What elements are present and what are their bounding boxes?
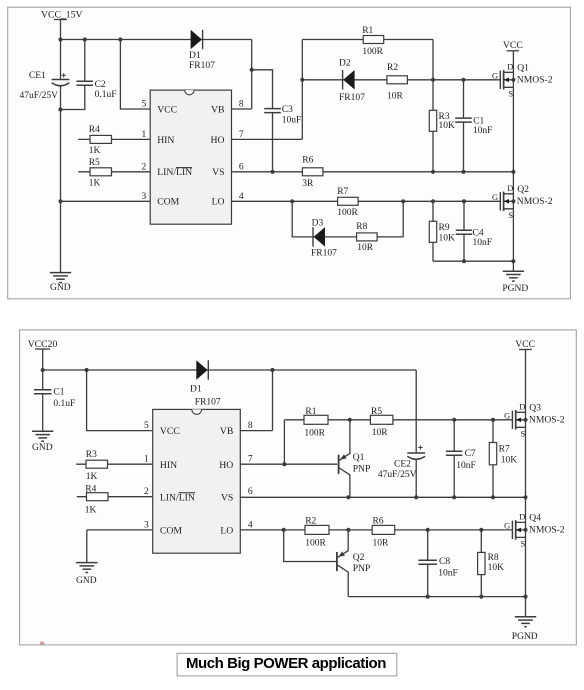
svg-text:R6: R6 [373,516,384,526]
svg-text:4: 4 [248,520,253,530]
svg-text:0.1uF: 0.1uF [53,399,75,409]
svg-text:FR107: FR107 [195,397,221,407]
svg-text:NMOS-2: NMOS-2 [517,196,553,207]
svg-text:LO: LO [212,197,225,208]
svg-text:CE2: CE2 [394,459,411,469]
svg-text:LIN/LIN: LIN/LIN [160,492,195,503]
svg-text:VCC: VCC [515,339,535,350]
svg-text:VCC20: VCC20 [28,339,58,350]
svg-text:HO: HO [219,460,233,471]
svg-text:CE1: CE1 [29,71,46,81]
svg-text:HIN: HIN [157,135,174,146]
svg-text:0.1uF: 0.1uF [95,90,117,100]
svg-text:D2: D2 [339,58,351,68]
svg-text:10nF: 10nF [473,238,493,248]
svg-text:PGND: PGND [502,284,528,294]
svg-text:10nF: 10nF [438,568,458,578]
svg-text:2: 2 [144,487,149,497]
svg-text:C1: C1 [473,116,484,126]
svg-text:47uF/25V: 47uF/25V [20,91,59,101]
svg-text:10K: 10K [439,121,456,131]
svg-text:100R: 100R [337,208,358,218]
svg-text:G: G [492,193,498,202]
svg-text:6: 6 [248,487,253,497]
svg-text:R4: R4 [89,125,100,135]
svg-text:C1: C1 [53,387,64,397]
svg-text:COM: COM [160,526,182,537]
svg-text:NMOS-2: NMOS-2 [529,525,565,536]
svg-text:47uF/25V: 47uF/25V [378,470,417,480]
svg-text:D: D [519,403,525,412]
svg-text:D: D [507,63,513,72]
svg-text:10nF: 10nF [456,461,476,471]
svg-text:3: 3 [141,192,146,202]
svg-text:GND: GND [32,443,53,453]
svg-text:VS: VS [221,492,233,503]
svg-text:G: G [504,521,510,530]
svg-text:R8: R8 [488,553,499,563]
svg-text:D1: D1 [189,51,201,61]
svg-text:5: 5 [144,421,149,431]
svg-text:S: S [508,89,513,98]
svg-text:FR107: FR107 [311,249,337,259]
svg-text:G: G [504,411,510,420]
svg-text:Q4: Q4 [529,513,541,524]
svg-text:R6: R6 [302,156,313,166]
svg-text:PNP: PNP [353,464,371,475]
svg-text:8: 8 [248,421,253,431]
svg-text:7: 7 [239,130,244,140]
svg-text:R5: R5 [371,407,382,417]
svg-text:8: 8 [239,100,244,110]
svg-text:C2: C2 [95,80,106,90]
svg-text:100R: 100R [305,539,326,549]
svg-text:S: S [521,540,526,549]
svg-text:NMOS-2: NMOS-2 [529,414,565,425]
svg-text:6: 6 [239,162,244,172]
svg-text:Q3: Q3 [529,402,541,413]
svg-text:VB: VB [211,105,224,116]
svg-text:R1: R1 [305,407,316,417]
svg-text:1K: 1K [89,179,101,189]
svg-text:3R: 3R [302,179,314,189]
svg-text:10R: 10R [372,428,389,438]
svg-text:VB: VB [220,426,233,437]
svg-text:Much Big POWER application: Much Big POWER application [186,655,386,672]
svg-text:R4: R4 [85,485,96,495]
svg-text:D1: D1 [190,385,202,395]
svg-text:10R: 10R [387,92,404,102]
svg-text:HO: HO [211,135,225,146]
svg-text:GND: GND [76,576,97,586]
svg-text:LIN/LIN: LIN/LIN [157,167,192,178]
svg-text:LO: LO [220,526,233,537]
svg-text:VCC: VCC [503,40,523,51]
svg-text:4: 4 [239,192,244,202]
svg-text:R3: R3 [86,450,97,460]
svg-text:10nF: 10nF [473,126,493,136]
svg-text:S: S [521,429,526,438]
svg-text:Q1: Q1 [353,452,365,463]
svg-text:HIN: HIN [160,460,177,471]
svg-text:R8: R8 [356,222,367,232]
svg-text:10K: 10K [501,455,518,465]
svg-text:R1: R1 [362,26,373,36]
svg-text:FR107: FR107 [339,93,365,103]
svg-text:1: 1 [141,130,146,140]
svg-text:FR107: FR107 [189,61,215,71]
svg-text:VCC: VCC [157,105,177,116]
svg-text:C8: C8 [439,557,450,567]
svg-text:10R: 10R [357,243,374,253]
svg-text:1K: 1K [86,472,98,482]
svg-text:2: 2 [141,162,146,172]
svg-text:100R: 100R [362,47,383,57]
svg-text:Q2: Q2 [353,552,365,563]
svg-text:C7: C7 [465,449,476,459]
svg-text:100R: 100R [304,429,325,439]
svg-text:Q1: Q1 [517,62,529,73]
svg-text:NMOS-2: NMOS-2 [517,74,553,85]
svg-text:5: 5 [141,100,146,110]
svg-text:D: D [507,184,513,193]
svg-text:VS: VS [212,167,224,178]
svg-text:D3: D3 [312,219,324,229]
svg-text:PGND: PGND [512,632,538,642]
svg-text:COM: COM [157,197,179,208]
svg-text:1K: 1K [89,146,101,156]
svg-text:G: G [492,71,498,80]
svg-text:R2: R2 [387,63,398,73]
svg-text:10K: 10K [488,563,505,573]
svg-text:R9: R9 [439,223,450,233]
svg-text:VCC: VCC [160,426,180,437]
svg-text:PNP: PNP [353,563,371,574]
svg-text:10R: 10R [373,539,390,549]
svg-text:10uF: 10uF [282,115,302,125]
svg-text:1: 1 [144,455,149,465]
svg-text:R7: R7 [499,445,510,455]
svg-text:C3: C3 [282,105,293,115]
svg-text:VCC_15V: VCC_15V [41,9,82,20]
svg-text:S: S [508,211,513,220]
svg-text:7: 7 [248,455,253,465]
svg-text:Q2: Q2 [517,184,529,195]
svg-text:1K: 1K [85,505,97,515]
svg-text:D: D [519,513,525,522]
svg-text:10K: 10K [439,234,456,244]
svg-text:GND: GND [50,283,71,293]
svg-text:R7: R7 [337,187,348,197]
svg-text:3: 3 [144,520,149,530]
svg-text:R2: R2 [305,516,316,526]
svg-text:R5: R5 [89,158,100,168]
